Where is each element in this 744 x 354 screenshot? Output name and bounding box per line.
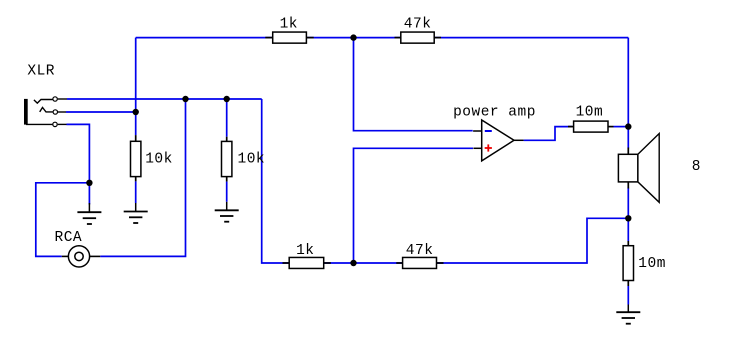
ground G1 left (77, 203, 101, 224)
junction dot pin2/top-row node (133, 109, 139, 115)
junction dot pin1/10k node (224, 96, 230, 102)
ground G3 under 10k R4 (215, 202, 239, 222)
RCA connector J2 (55, 230, 101, 267)
svg-text:RCA: RCA (55, 230, 83, 246)
op-amp plus sign (485, 147, 492, 149)
op-amp minus sign (485, 130, 492, 132)
wire top feedback row (136, 37, 629, 39)
junction dot top feedback node (350, 34, 356, 40)
wire XLR pin1 row (67, 98, 262, 100)
XLR pin1 contact (34, 99, 67, 103)
resistor R7 1k bottom (283, 243, 331, 269)
resistor R6 10m vertical (623, 241, 666, 286)
svg-text:10k: 10k (238, 152, 266, 168)
ground G2 under 10k R3 (124, 203, 148, 223)
wire speaker vertical top (627, 38, 629, 149)
speaker LS1 (618, 134, 701, 203)
wire ground node to RCA shell (36, 183, 90, 257)
wire pin1 down to bottom row and across to speaker bottom (262, 99, 629, 263)
svg-text:10m: 10m (576, 105, 604, 121)
resistor R3 10k left vertical (131, 135, 173, 181)
ground G4 under 10m R6 (616, 305, 640, 324)
wire 10k R3 to ground (135, 181, 137, 203)
junction dot bottom feedback node (350, 260, 356, 266)
op-amp U1 power amp (453, 105, 536, 161)
wire top node to op-amp inverting input (354, 38, 473, 131)
svg-text:XLR: XLR (27, 64, 55, 80)
wire ground node down (88, 183, 90, 205)
wire op-amp output to 10m R5 (524, 127, 573, 141)
wire 10m R5 to speaker node (614, 126, 629, 128)
junction dot ground node (86, 180, 92, 186)
wire left vertical from top row to 10k R3 (135, 38, 137, 136)
svg-text:1k: 1k (280, 17, 298, 33)
junction dot pin1/RCA node (182, 96, 188, 102)
svg-text:10k: 10k (145, 152, 173, 168)
wire 10m R6 to ground (627, 286, 629, 305)
resistor R5 10m horizontal (568, 105, 614, 133)
svg-text:8: 8 (692, 159, 701, 175)
wire pin1 row to 10k R4 (226, 99, 228, 137)
svg-text:47k: 47k (406, 243, 434, 259)
resistor R1 1k top (265, 17, 313, 44)
wire RCA pin to pin1 row (100, 99, 185, 256)
resistor R8 47k bottom (396, 243, 443, 269)
wire XLR pin2 row (66, 111, 136, 113)
junction dot speaker bottom node (625, 215, 631, 221)
svg-text:1k: 1k (296, 243, 314, 259)
wire 10k R4 to ground (226, 182, 228, 202)
wire bottom node to op-amp non-inverting input (354, 148, 474, 263)
XLR pin3 contact (26, 123, 67, 125)
svg-text:47k: 47k (404, 17, 432, 33)
svg-text:10m: 10m (638, 256, 666, 272)
junction dot speaker top node (625, 123, 631, 129)
wire XLR pin3 down (67, 124, 90, 182)
XLR connector body bar (24, 99, 28, 125)
wire speaker bottom to 10m R6 (627, 188, 629, 242)
resistor R2 47k top (395, 17, 442, 44)
svg-text:power amp: power amp (453, 105, 536, 121)
resistor R4 10k second vertical (222, 137, 266, 182)
XLR pin2 contact (40, 108, 66, 113)
